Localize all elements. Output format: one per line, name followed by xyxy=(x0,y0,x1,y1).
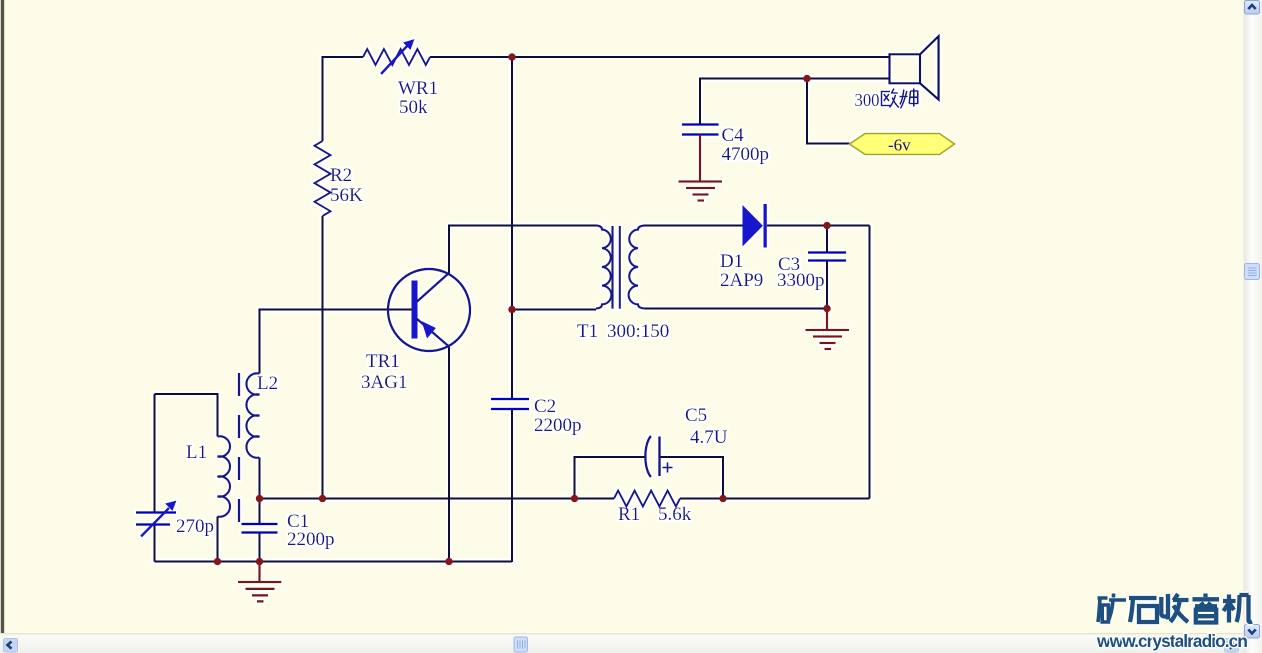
right scrollbar up arrow button xyxy=(1245,1,1260,15)
label speaker ohm glyph 欧 xyxy=(882,89,899,108)
junction dot primary bottom xyxy=(508,306,516,314)
wire: right-edge vertical return xyxy=(869,226,871,499)
potentiometer WR1 zigzag xyxy=(363,49,430,65)
svg-text:2200p: 2200p xyxy=(287,529,335,550)
resistor R1 zigzag xyxy=(614,491,680,507)
wire: center vertical from rail through C2 to ground bus xyxy=(511,56,513,562)
svg-text:C2: C2 xyxy=(534,396,556,417)
wire: C3 stubs xyxy=(826,226,828,309)
wire: C5 loop xyxy=(575,457,724,499)
wire: secondary top to diode and onward xyxy=(645,225,870,227)
capacitor C3 plates xyxy=(808,253,846,261)
speaker body xyxy=(890,54,921,83)
bottom scrollbar thumb xyxy=(514,637,528,652)
svg-text:56K: 56K xyxy=(330,185,363,206)
svg-text:L1: L1 xyxy=(186,442,207,463)
wire: speaker lower lead and C4 stub xyxy=(700,79,890,125)
transformer T1 primary winding xyxy=(596,226,611,309)
transformer T1 core xyxy=(613,226,620,309)
junction dot L1 bottom xyxy=(214,558,222,566)
variable capacitor plates xyxy=(136,513,176,525)
junction dot R1 right xyxy=(719,495,727,503)
transistor TR1 emitter diagonal xyxy=(417,319,450,348)
wire: top supply rail left segment xyxy=(323,56,364,58)
potentiometer WR1 wiper arrow xyxy=(381,45,408,74)
variable capacitor arrow xyxy=(141,508,169,537)
power flag -6v xyxy=(850,134,955,155)
wire: L1 top lead and bottom lead xyxy=(155,394,218,562)
svg-text:2200p: 2200p xyxy=(534,415,582,436)
wire: transformer primary bottom link xyxy=(512,309,596,311)
ground under C3 xyxy=(806,309,850,350)
junction dot R2/bus xyxy=(319,495,327,503)
svg-text:R1: R1 xyxy=(618,504,640,525)
svg-text:4700p: 4700p xyxy=(722,144,770,165)
svg-text:3AG1: 3AG1 xyxy=(361,372,407,393)
transformer T1 secondary winding xyxy=(629,226,645,309)
C5 plus sign xyxy=(663,463,673,473)
junction dot rail/center xyxy=(508,53,516,61)
svg-text:C4: C4 xyxy=(722,125,745,146)
right scrollbar thumb xyxy=(1245,264,1260,280)
right scrollbar track xyxy=(1244,0,1262,653)
svg-text:300: 300 xyxy=(855,90,880,110)
svg-text:-6v: -6v xyxy=(888,136,911,155)
junction dot R1 left xyxy=(571,495,579,503)
wire: base wire and L2 stubs xyxy=(260,310,413,499)
watermark glyph white halo xyxy=(1098,594,1253,623)
bottom scrollbar right arrow button xyxy=(1225,639,1239,653)
svg-text:3300p: 3300p xyxy=(777,270,825,291)
wire: R2 branch vertical xyxy=(322,56,324,500)
svg-text:270p: 270p xyxy=(176,516,214,537)
wire: secondary bottom to C3 xyxy=(645,308,827,310)
resistor R2 zigzag xyxy=(315,141,331,216)
wire: -6v tap xyxy=(807,79,850,144)
capacitor C1 plates xyxy=(242,524,278,533)
svg-text:300:150: 300:150 xyxy=(607,321,669,342)
svg-text:5.6k: 5.6k xyxy=(658,504,692,525)
junction dot C1 ground xyxy=(256,558,264,566)
wire: collector vertical and link to transformer primary xyxy=(449,226,596,562)
wire: bias bus at y=498.5 xyxy=(260,498,870,500)
svg-text:T1: T1 xyxy=(577,321,598,342)
left window border xyxy=(1,0,4,653)
ground under C4 (maroon lead) xyxy=(679,135,723,201)
junction dot diode/C3 xyxy=(823,222,831,230)
svg-text:TR1: TR1 xyxy=(366,351,400,372)
inductor L1 coil xyxy=(218,436,231,517)
junction dot emitter/bus xyxy=(445,558,453,566)
speaker cone xyxy=(920,36,939,99)
right scrollbar down arrow button xyxy=(1245,625,1260,639)
capacitor C4 plates xyxy=(682,125,719,135)
junction dot L2/C1/bus xyxy=(256,495,264,503)
svg-text:50k: 50k xyxy=(399,97,428,118)
transistor TR1 circle xyxy=(388,269,470,351)
ground under C1 xyxy=(238,562,281,602)
bottom scrollbar left arrow button xyxy=(4,639,18,653)
svg-text:L2: L2 xyxy=(257,373,278,394)
junction dot C3 bottom xyxy=(823,305,831,313)
diode D1 xyxy=(743,205,764,247)
wire: C1 stubs xyxy=(259,499,261,562)
transistor TR1 base bar xyxy=(412,281,418,339)
transistor TR1 collector diagonal xyxy=(417,273,450,303)
svg-text:D1: D1 xyxy=(720,251,743,272)
svg-text:4.7U: 4.7U xyxy=(690,427,728,448)
watermark glyph ink xyxy=(1098,594,1253,623)
wire: ground bus xyxy=(155,561,513,563)
electrolytic C5 straight plate xyxy=(658,437,661,477)
svg-text:2AP9: 2AP9 xyxy=(720,270,763,291)
wire: left branch through variable capacitor xyxy=(154,394,156,562)
junction dot -6v tap xyxy=(803,75,811,83)
capacitor C2 plates xyxy=(491,399,529,409)
transistor TR1 emitter arrow (PNP) xyxy=(422,321,437,339)
svg-text:WR1: WR1 xyxy=(398,78,438,99)
svg-text:C5: C5 xyxy=(685,405,707,426)
electrolytic C5 curved plate xyxy=(645,436,651,477)
svg-text:www.crystalradio.cn: www.crystalradio.cn xyxy=(1096,631,1248,651)
bottom scrollbar track xyxy=(0,635,1262,653)
label speaker ohm glyph 姆 xyxy=(900,89,918,109)
L1/L2 coupling dashed core xyxy=(238,373,240,528)
inductor L2 coil xyxy=(246,373,259,458)
wire: top supply rail right segment to speaker xyxy=(430,56,890,58)
svg-text:R2: R2 xyxy=(330,165,352,186)
